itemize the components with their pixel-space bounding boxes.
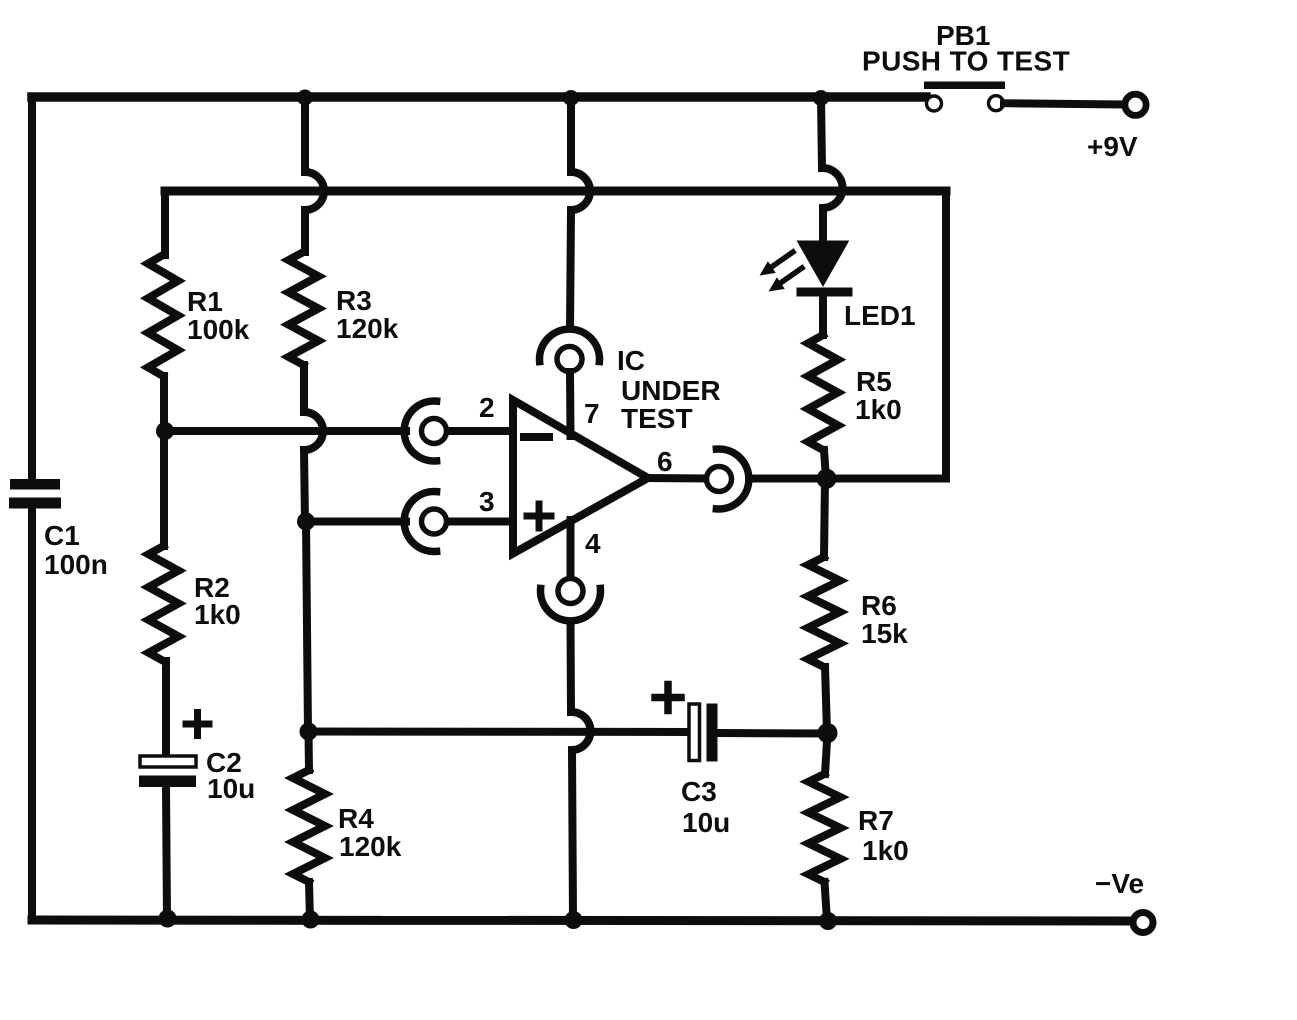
capacitor C1: [9, 479, 61, 509]
resistor R2: [149, 546, 179, 661]
wire R2 top lead: [160, 431, 168, 546]
switch PB1 contact circle left: [927, 96, 942, 111]
svg-text:R4: R4: [338, 803, 374, 834]
wire R6 top lead: [824, 479, 825, 557]
wire R6 bottom lead to C3 node: [825, 667, 827, 732]
LED light emission arrow 2: [780, 268, 802, 283]
svg-text:R5: R5: [856, 366, 892, 397]
svg-text:UNDER: UNDER: [621, 375, 721, 406]
wire LED branch with hop over second rail: [821, 97, 843, 244]
terminal -Ve: [1133, 913, 1153, 933]
svg-text:1k0: 1k0: [194, 599, 241, 630]
wire op-amp output to pin6 hook: [648, 474, 705, 483]
wire R1 lead from second rail: [161, 191, 169, 255]
capacitor C3 polarity plus: [655, 685, 681, 711]
wire LED cathode to R5: [819, 296, 827, 335]
svg-text:10u: 10u: [682, 807, 730, 838]
svg-text:100n: 100n: [44, 549, 108, 580]
wire R3/R4 vertical between pin3 node and C3 row node: [306, 522, 308, 733]
svg-text:C3: C3: [681, 776, 717, 807]
switch PB1 actuator bar: [924, 82, 1005, 90]
wire bottom rail 0V: [32, 920, 1130, 921]
wire pin4 lead from op-amp: [567, 520, 575, 578]
node junction dot R7/bottom rail: [819, 912, 837, 930]
svg-text:3: 3: [479, 486, 495, 517]
svg-text:15k: 15k: [861, 618, 908, 649]
wire R5 bottom lead to output node: [824, 450, 826, 478]
node junction dot R3/R4/pin3 row: [297, 513, 315, 531]
svg-text:120k: 120k: [336, 313, 399, 344]
node junction dot top rail / R3: [297, 90, 313, 106]
node junction dot R4 top / C3 row: [300, 723, 318, 741]
wire R7 bottom lead: [825, 882, 828, 921]
svg-text:4: 4: [585, 528, 601, 559]
wire C3 to R6/R7 node: [718, 729, 828, 738]
svg-text:TEST: TEST: [621, 403, 693, 434]
socket hook arc pin 7: [540, 329, 600, 361]
svg-text:6: 6: [657, 446, 673, 477]
wire pin3 row: [306, 518, 406, 526]
svg-text:−Ve: −Ve: [1095, 868, 1144, 899]
svg-text:100k: 100k: [187, 314, 250, 345]
resistor R4: [293, 770, 325, 882]
wire pin4 down with hop over C3 row to bottom rail: [571, 622, 591, 920]
wire R3 bottom lead with hop over pin2 row: [304, 365, 323, 522]
svg-text:R7: R7: [858, 805, 894, 836]
socket pin circle 4: [558, 579, 583, 604]
node junction dot top rail / pin7 branch: [563, 90, 579, 106]
svg-text:C1: C1: [44, 520, 80, 551]
capacitor C2 polarity plus: [186, 713, 209, 736]
op-amp U1 triangle: [513, 400, 648, 554]
wire R4 top lead: [305, 732, 314, 771]
svg-text:120k: 120k: [339, 831, 402, 862]
node junction dot pin4/bottom rail: [565, 911, 583, 929]
wire output row from pin6 hook to right loop corner: [750, 475, 946, 483]
op-amp inverting input minus sign: [524, 433, 549, 441]
capacitor C3: [689, 704, 718, 762]
wire C3 row from R3/R4 node to C3: [309, 728, 689, 737]
wire left edge vertical (top rail corner down to C1): [28, 97, 36, 479]
svg-text:+9V: +9V: [1087, 131, 1138, 162]
svg-text:1k0: 1k0: [862, 835, 909, 866]
svg-text:R1: R1: [187, 286, 223, 317]
node junction dot R1/R2/pin2 row: [156, 422, 174, 440]
svg-text:2: 2: [479, 392, 495, 423]
op-amp non-inverting input plus sign: [527, 504, 551, 528]
node junction dot R4/bottom rail: [302, 911, 320, 929]
wire pin7 lead into op-amp: [566, 372, 575, 436]
LED light emission arrow 1: [771, 252, 793, 267]
svg-text:R3: R3: [336, 285, 372, 316]
wire left edge vertical (C1 down to bottom rail): [28, 509, 36, 921]
wire pin7 branch with hop over second rail: [570, 97, 590, 328]
svg-text:7: 7: [584, 398, 600, 429]
LED1 cathode bar: [797, 288, 853, 297]
resistor R7: [809, 774, 841, 882]
wire PB1 to +9V terminal: [1004, 103, 1122, 104]
wire R7 top lead: [825, 733, 828, 774]
socket pin circle 3: [422, 509, 447, 534]
socket pin circle 2: [422, 419, 447, 444]
LED1 diode triangle: [797, 241, 850, 288]
socket hook arc pin 6: [716, 449, 748, 509]
wire R4 bottom lead: [309, 882, 310, 920]
wire second rail (output feedback rail): [165, 187, 946, 196]
wire pin2 hook to op-amp: [447, 427, 515, 435]
wire R3 branch with hop over second rail: [305, 97, 324, 252]
terminal +9V: [1125, 94, 1146, 115]
socket pin circle 7: [557, 347, 582, 372]
socket hook arc pin 3: [404, 492, 436, 552]
node junction dot R6/R7/C3 row: [818, 723, 838, 743]
resistor R3: [289, 252, 319, 365]
node junction dot C2/bottom rail: [159, 910, 177, 928]
svg-text:R6: R6: [861, 590, 897, 621]
switch PB1 contact circle right: [989, 96, 1004, 111]
resistor R6: [808, 557, 840, 667]
wire C2 bottom lead to bottom rail: [166, 787, 167, 919]
socket hook arc pin 2: [404, 401, 436, 461]
node junction dot top rail / LED branch: [813, 90, 829, 106]
resistor R5: [808, 335, 838, 450]
svg-text:PUSH TO TEST: PUSH TO TEST: [862, 46, 1070, 77]
wire R1 bottom lead to pin2 node: [160, 376, 168, 431]
socket pin circle 6: [707, 467, 732, 492]
svg-text:IC: IC: [617, 345, 645, 376]
capacitor C2: [139, 756, 196, 787]
wire pin2 row: [165, 427, 406, 435]
wire right loop vertical (output up to second rail): [942, 191, 950, 479]
socket hook arc pin 4: [541, 588, 601, 620]
wire top rail +9V from left corner to push button: [32, 92, 926, 102]
resistor R1: [148, 255, 178, 376]
wire R2 bottom lead to C2: [162, 661, 170, 756]
svg-text:10u: 10u: [207, 773, 255, 804]
wire pin3 hook to op-amp: [447, 518, 515, 526]
node junction dot output row / R5 / R6: [817, 469, 837, 489]
svg-text:1k0: 1k0: [855, 394, 902, 425]
svg-text:LED1: LED1: [844, 300, 916, 331]
